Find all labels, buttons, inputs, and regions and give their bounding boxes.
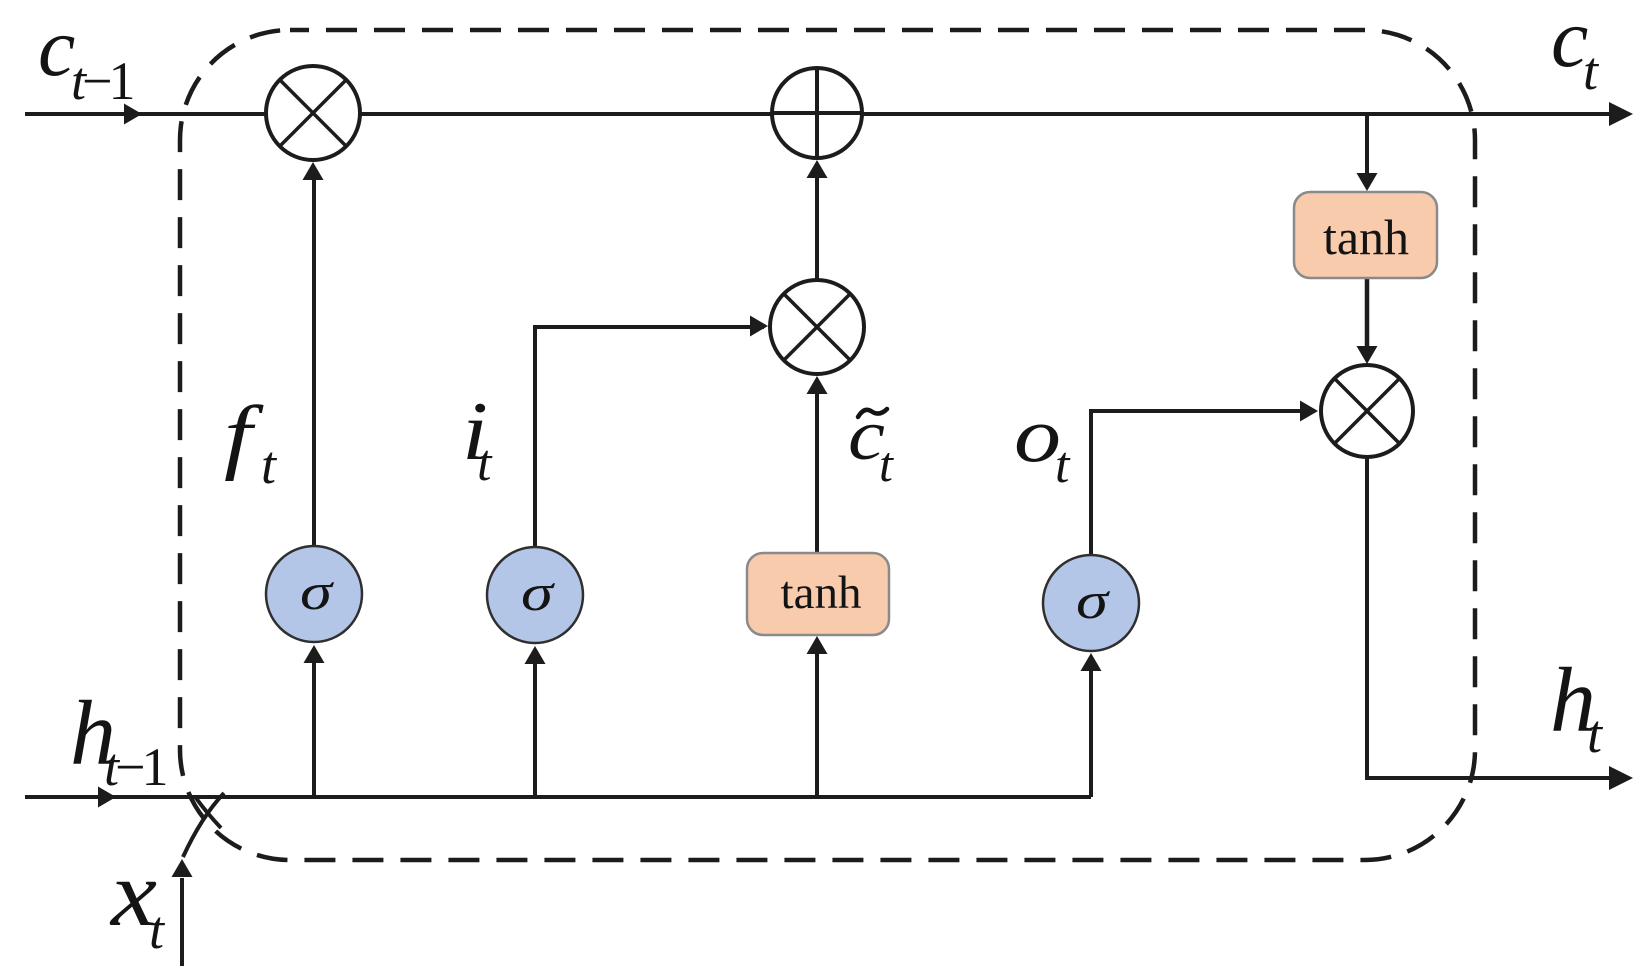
arrowhead: into sigma forget [304, 645, 325, 663]
wire: mid multiply up to add [815, 165, 819, 374]
wire: o branch vertical + horizontal into right multiply [1091, 411, 1315, 555]
svg-text:c: c [38, 1, 75, 94]
arrowhead: into right multiply (down from tanh) [1357, 346, 1378, 364]
svg-text:σ: σ [300, 564, 335, 621]
svg-text:t−1: t−1 [104, 737, 165, 797]
svg-text:t: t [1587, 704, 1604, 764]
multiply node: output gate product (right circle with X) [1321, 365, 1413, 457]
svg-text:t: t [1583, 41, 1600, 101]
svg-text:t: t [149, 900, 166, 960]
arrowhead: h input [98, 787, 116, 808]
wire: i branch vertical + horizontal into mid multiply [535, 327, 764, 547]
sigma gate: input [487, 547, 583, 643]
arrowhead: into sigma output [1081, 653, 1102, 671]
svg-text:t−1: t−1 [71, 51, 132, 111]
arrowhead: h output [1609, 766, 1633, 790]
wire: h output from right multiply [1367, 457, 1625, 778]
sigma gate: forget [266, 546, 362, 642]
svg-text:o: o [1014, 392, 1061, 478]
sigma gate: output [1043, 555, 1139, 651]
wire: x_t input vertical [180, 878, 184, 966]
arrowhead: into mid multiply (from tanh) [807, 376, 828, 394]
wire: c line (top horizontal) [25, 112, 1625, 116]
multiply node: input gate product (middle circle with X) [770, 280, 864, 374]
wire: h line (bottom horizontal) [25, 795, 1091, 799]
arrowhead: into mid multiply (from i) [750, 316, 768, 337]
wire: x_t merge braid curve [183, 793, 224, 857]
tilde accent of c-tilde [858, 409, 887, 417]
arrowhead: x_t up [172, 859, 193, 877]
svg-text:t: t [261, 435, 278, 495]
tanh box: output (right) [1294, 192, 1437, 278]
svg-text:t: t [477, 435, 493, 492]
wire: c line down into right tanh [1365, 114, 1369, 178]
multiply node: forget gate (top-left circle with X) [266, 66, 360, 160]
svg-text:σ: σ [1076, 573, 1111, 630]
arrowhead: into right multiply (from o) [1300, 401, 1318, 422]
wire: braid counter stroke [196, 798, 221, 828]
wire: f branch vertical [312, 168, 316, 546]
tanh box: candidate (middle) [747, 553, 889, 635]
arrowhead: c output [1609, 102, 1633, 126]
arrowhead: c input [124, 104, 142, 125]
svg-text:tanh: tanh [781, 567, 862, 619]
svg-text:t: t [879, 436, 894, 492]
wire: candidate branch vertical [815, 382, 819, 553]
arrowhead: into mid tanh box [807, 636, 828, 654]
arrowhead: into sigma input [525, 646, 546, 664]
wire: right tanh to right multiply [1365, 278, 1370, 350]
add node: cell state sum (circle with plus) [772, 68, 862, 158]
arrowhead: into add node [807, 160, 828, 178]
arrowhead: into right tanh (down) [1357, 173, 1378, 191]
svg-text:tanh: tanh [1323, 209, 1409, 265]
svg-text:t: t [1055, 437, 1071, 494]
svg-text:σ: σ [521, 565, 556, 622]
LSTM cell dashed boundary [180, 30, 1475, 860]
arrowhead: into forget multiply [303, 162, 324, 180]
